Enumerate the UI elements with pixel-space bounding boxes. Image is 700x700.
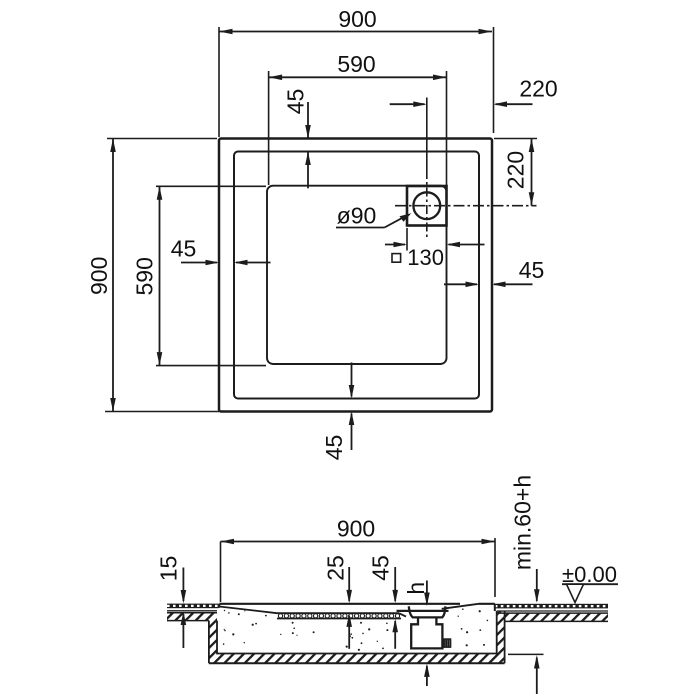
left screed outline: [167, 612, 217, 614]
svg-text:45: 45: [171, 236, 197, 262]
tray floor outline square: [267, 186, 447, 364]
pit outer outline: [208, 621, 210, 664]
dimension 900 top: [219, 31, 492, 33]
drain horizontal centerline: [395, 205, 537, 207]
dimension 130 extension line: [406, 228, 408, 251]
tray floor flat: [277, 612, 399, 614]
svg-text:min.60+h: min.60+h: [510, 475, 536, 570]
left floor tile layer: [167, 604, 219, 609]
svg-text:45: 45: [368, 555, 394, 581]
svg-text:900: 900: [338, 6, 376, 32]
tray rim top surface: [219, 603, 460, 605]
dimension 590 left extension lines: [156, 185, 266, 187]
tray left edge: [218, 604, 220, 608]
svg-text:ø90: ø90: [337, 203, 377, 229]
svg-text:45: 45: [519, 257, 545, 283]
tray right edge: [494, 604, 496, 611]
svg-text:220: 220: [519, 76, 557, 102]
dimension 590 top extension lines: [268, 71, 270, 185]
svg-text:590: 590: [132, 257, 158, 295]
tray floor slope left: [219, 607, 277, 614]
dimension 900 left extension lines: [107, 138, 217, 140]
svg-text:45: 45: [321, 435, 347, 461]
dimension 900 top extension lines: [218, 27, 220, 137]
dimension 45 bottom: [351, 363, 353, 397]
right screed outline: [497, 612, 608, 614]
drain flange line: [397, 610, 449, 612]
mortar fill dots: [238, 613, 240, 615]
tray anti-slip dots strip: [278, 614, 282, 618]
dimension 45 right: [444, 283, 477, 285]
dimension 220 top: [390, 103, 425, 105]
dimension 900 section extension lines: [220, 542, 222, 603]
svg-text:220: 220: [503, 151, 529, 189]
drain pot body: [411, 617, 442, 648]
dimension 45 top: [307, 102, 309, 139]
drain vertical centerline: [426, 98, 428, 171]
dimension 900 section: [221, 541, 496, 543]
svg-text:15: 15: [156, 556, 182, 582]
drain circle o90: [413, 192, 440, 219]
shower tray outer edge 900x900 square: [219, 139, 492, 412]
svg-text:25: 25: [323, 555, 349, 581]
dimension 220 right: [531, 139, 533, 206]
floor screed and pit concrete hatching: [167, 613, 217, 621]
right floor tile layer: [495, 604, 608, 609]
svg-text:900: 900: [86, 257, 112, 295]
svg-text:130: 130: [407, 245, 444, 270]
svg-text:590: 590: [337, 51, 375, 77]
dimension 900 left: [112, 139, 114, 412]
pit inner outline: [217, 611, 497, 654]
dimension 45 left: [181, 262, 217, 264]
tray floor slope right: [442, 604, 479, 609]
drain funnel dish: [409, 606, 446, 617]
dimension 220 right extension line: [494, 138, 537, 140]
svg-text:900: 900: [337, 516, 375, 542]
tray rim inner edge square: [234, 152, 479, 399]
dimension 130: [385, 244, 405, 246]
tray floor strip bottom: [277, 618, 401, 620]
svg-text:±0.00: ±0.00: [562, 562, 617, 587]
svg-text:45: 45: [283, 89, 309, 115]
drain outlet spigot: [443, 639, 450, 647]
dimension min.60+h extension line: [508, 653, 544, 655]
drain frame square: [407, 186, 447, 226]
dimension 590 top: [269, 76, 447, 78]
dimension 590 left: [159, 186, 161, 365]
